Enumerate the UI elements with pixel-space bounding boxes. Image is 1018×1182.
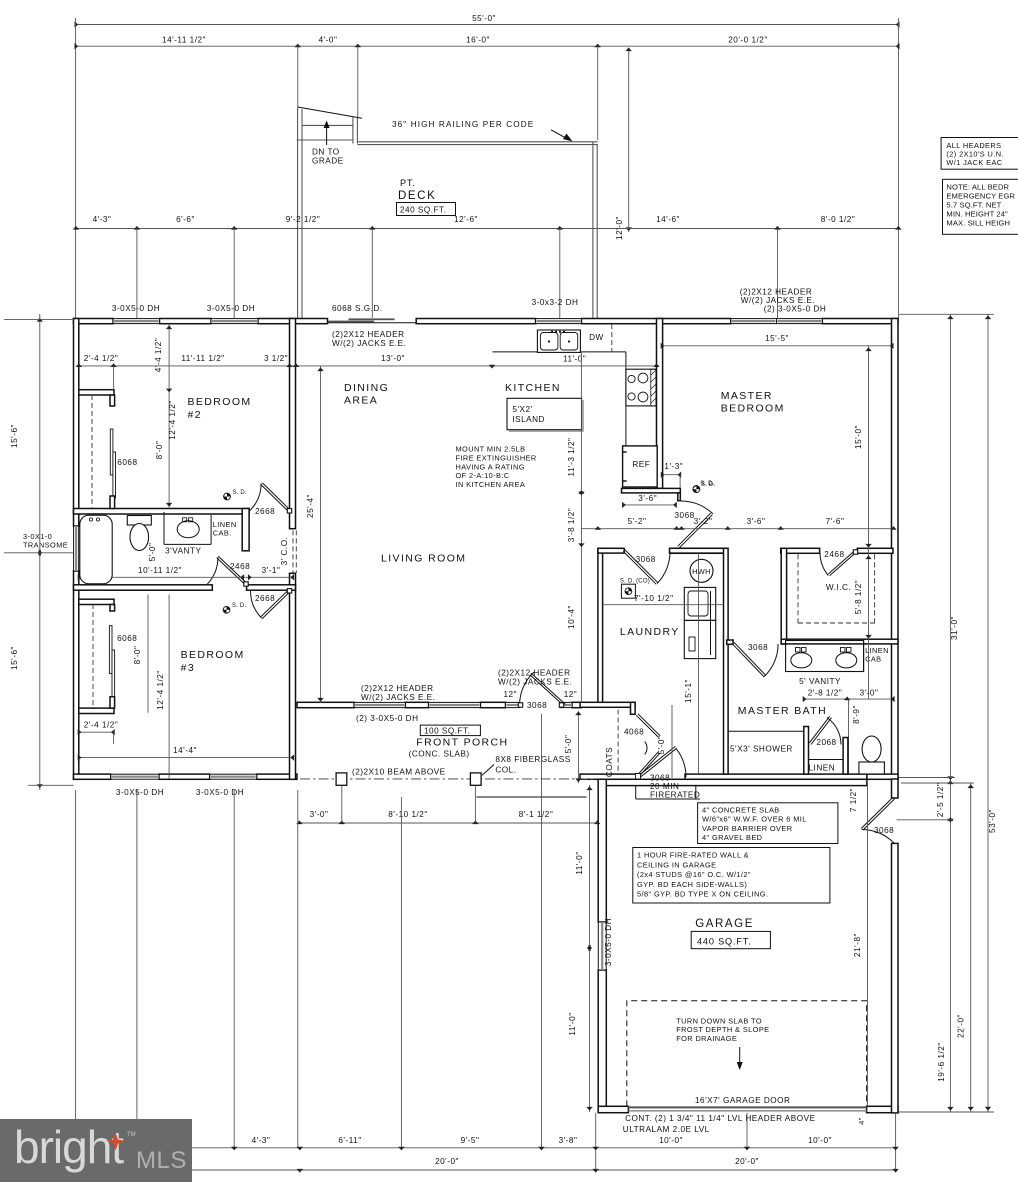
sliding glass door 6068 S.G.D.	[328, 322, 417, 324]
deck stair slanted top	[298, 107, 362, 118]
svg-text:25'-4": 25'-4"	[306, 494, 315, 518]
bedroom3 vertical dims	[147, 594, 149, 712]
dim row y366 bedroom2/dining/kitchen	[79, 365, 657, 367]
svg-text:240 SQ.FT.: 240 SQ.FT.	[400, 206, 446, 215]
hot water heater HWH	[690, 559, 713, 582]
porch column 1 8X8	[336, 773, 347, 785]
svg-text:15'-5": 15'-5"	[765, 334, 789, 343]
svg-text:TM: TM	[127, 1132, 136, 1138]
hall bath bottom wall	[74, 585, 213, 590]
svg-text:(2)2X12 HEADER: (2)2X12 HEADER	[361, 684, 434, 693]
extension line left house corner	[75, 18, 77, 318]
svg-text:3068: 3068	[874, 826, 894, 835]
svg-text:21'-8": 21'-8"	[853, 933, 862, 957]
svg-text:CONT. (2) 1 3/4" 11 1/4" LVL H: CONT. (2) 1 3/4" 11 1/4" LVL HEADER ABOV…	[625, 1114, 815, 1123]
vanity sink left	[791, 653, 812, 668]
svg-text:CEILING IN GARAGE: CEILING IN GARAGE	[637, 860, 717, 869]
svg-text:14'-11 1/2": 14'-11 1/2"	[162, 36, 206, 45]
smoke detector bedroom3	[223, 606, 230, 613]
svg-text:W/(2) JACKS E.E.: W/(2) JACKS E.E.	[332, 339, 406, 348]
note box 1 hour fire-rated wall	[633, 848, 830, 904]
svg-text:12'-0": 12'-0"	[615, 216, 624, 240]
master bath vanity counter	[786, 641, 864, 672]
dryer	[684, 620, 715, 658]
svg-text:(2)2X12 HEADER: (2)2X12 HEADER	[332, 330, 405, 339]
svg-text:TRANSOME: TRANSOME	[23, 541, 68, 550]
svg-text:3'VANTY: 3'VANTY	[165, 547, 201, 556]
deck railing top	[357, 141, 597, 143]
svg-text:MASTER: MASTER	[721, 390, 773, 402]
svg-text:LIVING ROOM: LIVING ROOM	[381, 553, 466, 565]
svg-text:#3: #3	[181, 662, 195, 674]
garage left wall	[598, 779, 606, 922]
svg-text:8'-0": 8'-0"	[155, 441, 164, 460]
svg-text:3'-0": 3'-0"	[310, 810, 329, 819]
svg-text:2468: 2468	[824, 550, 844, 559]
svg-text:FIRE EXTINGUISHER: FIRE EXTINGUISHER	[456, 453, 537, 462]
left dim line 15'-6" x2	[39, 314, 41, 790]
master bedroom south wall	[670, 548, 727, 553]
garage right wall	[892, 779, 899, 798]
svg-text:2'-4 1/2": 2'-4 1/2"	[84, 354, 118, 363]
svg-text:20'-0 1/2": 20'-0 1/2"	[728, 36, 768, 45]
svg-text:10'-0": 10'-0"	[808, 1136, 832, 1145]
svg-text:14'-6": 14'-6"	[656, 215, 680, 224]
porch recessed front wall	[297, 702, 354, 707]
shower 5'X3'	[728, 730, 804, 732]
washer	[684, 587, 715, 620]
right dim line B 53'-0"	[987, 314, 989, 1112]
entry door sidelite left 12 inch	[506, 702, 520, 707]
bedroom2 closet rod dashed	[91, 395, 93, 509]
svg-text:NOTE: ALL BEDR: NOTE: ALL BEDR	[946, 182, 1009, 191]
svg-text:BEDROOM: BEDROOM	[181, 649, 245, 661]
dim 8'-9"	[848, 699, 850, 774]
svg-text:11'-3 1/2": 11'-3 1/2"	[567, 438, 576, 477]
right dim line C 22'-0"	[970, 783, 972, 1112]
svg-text:5'-8 1/2": 5'-8 1/2"	[854, 580, 863, 614]
svg-text:#2: #2	[188, 409, 202, 421]
bedroom2 bottom wall	[74, 509, 250, 515]
garage bottom wall	[598, 1106, 628, 1112]
kitchen south wall with REF counter	[622, 488, 681, 493]
svg-text:BEDROOM: BEDROOM	[721, 403, 785, 415]
laundry dim 7'-10 1/2"	[603, 604, 724, 606]
garage window 3-0X5-0 DH	[598, 922, 606, 970]
svg-text:55'-0": 55'-0"	[472, 14, 496, 23]
WIC door 2468	[828, 550, 855, 574]
deck stair right rail	[352, 117, 354, 143]
svg-text:15'-0": 15'-0"	[854, 425, 863, 449]
svg-text:DINING: DINING	[344, 382, 389, 394]
svg-text:(2) 3-0X5-0 DH: (2) 3-0X5-0 DH	[356, 714, 419, 723]
svg-text:3'-1": 3'-1"	[262, 566, 281, 575]
bottom extension lines	[75, 790, 77, 1148]
WIC west wall	[781, 548, 786, 644]
svg-text:3068: 3068	[675, 511, 695, 520]
porch depth dim 5'-0"	[577, 711, 579, 783]
porch column 2 8X8	[470, 773, 481, 785]
svg-text:9'-5": 9'-5"	[461, 1136, 480, 1145]
hall bath tub	[80, 515, 112, 584]
svg-text:12'-4 1/2": 12'-4 1/2"	[168, 400, 177, 440]
bedroom3 closet bifold panels 6068	[109, 626, 112, 674]
svg-text:53'-0": 53'-0"	[988, 809, 997, 833]
svg-text:2068: 2068	[816, 738, 836, 747]
deck stair left rail	[297, 108, 299, 319]
deck stair tread line	[302, 124, 353, 126]
svg-text:DN TO: DN TO	[312, 148, 340, 157]
svg-text:8'-0 1/2": 8'-0 1/2"	[821, 215, 855, 224]
svg-text:1'-3": 1'-3"	[664, 462, 683, 471]
hall dim row y528: 5'-2", 3'-2", 3'-6", 7'-6"	[581, 528, 893, 530]
svg-text:11'-11 1/2": 11'-11 1/2"	[181, 354, 224, 363]
svg-text:HAVING A RATING: HAVING A RATING	[456, 462, 525, 471]
window center extension lines to row 3	[136, 229, 138, 319]
svg-text:3-0X5-0 DH: 3-0X5-0 DH	[116, 788, 164, 797]
svg-text:4": 4"	[857, 1117, 866, 1125]
right exterior wall main house	[892, 319, 899, 780]
svg-text:1 HOUR FIRE-RATED WALL &: 1 HOUR FIRE-RATED WALL &	[637, 851, 749, 860]
svg-text:(2)2X10 BEAM ABOVE: (2)2X10 BEAM ABOVE	[352, 768, 446, 777]
svg-text:5'X3' SHOWER: 5'X3' SHOWER	[730, 745, 793, 754]
overall dimension 55'-0" top row	[76, 24, 899, 26]
svg-text:KITCHEN: KITCHEN	[505, 382, 561, 394]
vanity sink right	[836, 653, 857, 668]
svg-text:4'-3": 4'-3"	[252, 1136, 271, 1145]
logo star	[106, 1133, 125, 1151]
svg-text:3'-0": 3'-0"	[860, 689, 879, 698]
living room vertical dim 10'-4"	[580, 549, 582, 703]
dishwasher DW dashed	[611, 324, 613, 352]
svg-text:22'-0": 22'-0"	[957, 1014, 966, 1038]
svg-text:3068: 3068	[748, 643, 768, 652]
garage door 16X7	[628, 1106, 866, 1108]
svg-text:W/1 JACK EAC: W/1 JACK EAC	[946, 158, 1002, 167]
laundry to garage door 3068 20-min fire-rated	[641, 748, 677, 777]
svg-text:12'-6": 12'-6"	[454, 215, 478, 224]
bottom dim row 1	[76, 1147, 896, 1149]
extension line stair right	[357, 46, 359, 117]
svg-text:14'-4": 14'-4"	[173, 746, 197, 755]
svg-text:36" HIGH RAILING PER CODE: 36" HIGH RAILING PER CODE	[392, 120, 534, 129]
hall bath toilet	[127, 516, 151, 526]
svg-text:15'-6": 15'-6"	[10, 424, 19, 448]
svg-text:VAPOR BARRIER OVER: VAPOR BARRIER OVER	[702, 824, 792, 833]
svg-text:MLS: MLS	[136, 1147, 187, 1174]
entry door 3068 leaf and swing	[530, 675, 564, 706]
svg-text:LINEN: LINEN	[809, 764, 836, 773]
laundry top wall segments with door 3068	[598, 548, 624, 553]
svg-text:11'-0": 11'-0"	[568, 1012, 577, 1035]
svg-text:MAX. SILL HEIGH: MAX. SILL HEIGH	[946, 218, 1010, 227]
refrigerator REF	[623, 446, 658, 487]
svg-text:bright: bright	[14, 1121, 124, 1173]
svg-text:3068: 3068	[636, 555, 656, 564]
front exterior wall left section	[74, 774, 111, 779]
deck railing right side	[592, 142, 594, 319]
laundry door 3068	[623, 551, 656, 584]
bedroom2 door 2668	[262, 483, 289, 510]
svg-text:5.7 SQ.FT. NET: 5.7 SQ.FT. NET	[946, 200, 1001, 209]
svg-text:4'-0": 4'-0"	[319, 36, 338, 45]
svg-text:4'-4 1/2": 4'-4 1/2"	[154, 338, 163, 372]
master bedroom door 3068	[679, 515, 712, 548]
bright MLS logo box	[0, 1119, 192, 1182]
bedroom2 closet return top	[79, 390, 114, 395]
svg-text:31'-0": 31'-0"	[950, 616, 959, 640]
bedroom2 closet return bottom	[110, 496, 115, 509]
svg-text:9'-2 1/2": 9'-2 1/2"	[286, 215, 320, 224]
window 3-0X5-0 DH bedroom2 left	[113, 319, 160, 324]
svg-text:ISLAND: ISLAND	[512, 415, 545, 424]
svg-text:GARAGE: GARAGE	[695, 918, 754, 930]
label 440 SQ.FT. box	[691, 931, 770, 948]
linen cabinet divider master bath	[863, 641, 865, 672]
svg-text:6'-6": 6'-6"	[176, 215, 195, 224]
svg-text:20'-0": 20'-0"	[435, 1157, 459, 1166]
svg-text:PT.: PT.	[400, 178, 416, 188]
svg-text:5'-0": 5'-0"	[657, 736, 666, 755]
kitchen counter edge	[493, 351, 626, 353]
svg-text:COATS: COATS	[605, 747, 614, 777]
WIC dashed shelving	[797, 554, 799, 623]
garage left dim 11'-0" x2	[589, 785, 591, 1112]
svg-text:MIN. HEIGHT 24": MIN. HEIGHT 24"	[946, 209, 1008, 218]
window 3-0X1-0 transom in left wall	[74, 526, 79, 571]
svg-text:GRADE: GRADE	[312, 157, 344, 166]
coats closet top wall	[580, 702, 635, 707]
svg-text:FOR DRAINAGE: FOR DRAINAGE	[676, 1034, 737, 1043]
svg-text:CAB: CAB	[865, 655, 881, 664]
svg-text:10'-0": 10'-0"	[659, 1136, 683, 1145]
svg-text:S. D. (CO): S. D. (CO)	[620, 579, 650, 585]
svg-text:DW: DW	[589, 333, 604, 342]
window 3-0X5-0 DH bedroom3 right	[210, 774, 257, 779]
svg-text:CAB.: CAB.	[213, 529, 232, 538]
garage top wall	[598, 779, 867, 785]
svg-text:S. D.: S. D.	[701, 482, 715, 488]
deck stair landing line	[297, 139, 353, 141]
svg-text:4'-3": 4'-3"	[93, 215, 112, 224]
svg-text:TURN DOWN SLAB TO: TURN DOWN SLAB TO	[676, 1017, 762, 1026]
extension line deck right	[597, 46, 599, 140]
svg-text:W/(2) JACKS E.E.: W/(2) JACKS E.E.	[361, 693, 435, 702]
smoke detector S.D.(CO) laundry	[621, 584, 635, 598]
hall living room wall with cased opening	[292, 530, 294, 573]
svg-text:12'-4 1/2": 12'-4 1/2"	[156, 670, 165, 710]
svg-text:3'-2": 3'-2"	[694, 517, 713, 526]
svg-text:W.I.C.: W.I.C.	[826, 583, 851, 592]
svg-text:5'X2': 5'X2'	[512, 405, 532, 414]
svg-text:13'-0": 13'-0"	[381, 354, 405, 363]
svg-text:AREA: AREA	[344, 395, 378, 407]
svg-text:6068 S.G.D.: 6068 S.G.D.	[332, 304, 383, 313]
svg-text:2'-5 1/2": 2'-5 1/2"	[936, 783, 945, 817]
svg-text:ULTRALAM 2.0E LVL: ULTRALAM 2.0E LVL	[623, 1125, 710, 1134]
svg-text:COL.: COL.	[495, 766, 516, 775]
svg-text:5'-0": 5'-0"	[148, 543, 157, 562]
bedroom2 vertical dims	[168, 324, 170, 509]
svg-text:11'-0": 11'-0"	[563, 355, 586, 364]
svg-text:7'-6": 7'-6"	[826, 517, 845, 526]
svg-text:2468: 2468	[230, 562, 250, 571]
porch window B	[429, 702, 481, 707]
svg-text:(2) 3-0X5-0 DH: (2) 3-0X5-0 DH	[764, 305, 827, 314]
svg-text:16'-0": 16'-0"	[466, 36, 490, 45]
dim 3'-6" below REF	[623, 504, 676, 506]
master bedroom dim 15'-5"	[662, 345, 893, 347]
svg-text:4" GRAVEL BED: 4" GRAVEL BED	[702, 833, 762, 842]
svg-text:7 1/2": 7 1/2"	[849, 788, 858, 812]
svg-text:15'-1": 15'-1"	[684, 679, 693, 703]
bedroom2 closet bifold panels 6068	[110, 429, 113, 475]
deck area 240 SQ.FT. box	[397, 203, 456, 216]
svg-text:S. D.: S. D.	[233, 490, 247, 496]
turn down slab dashed rect	[627, 1001, 867, 1107]
laundry dim 15'-1"	[698, 552, 700, 774]
hall bath door 2468	[218, 556, 247, 583]
svg-text:12": 12"	[564, 690, 578, 699]
hall bath vanity	[163, 512, 165, 544]
svg-text:4068: 4068	[624, 728, 644, 737]
svg-text:3-0x3-2 DH: 3-0x3-2 DH	[532, 298, 579, 307]
kitchen island 5'X2'	[507, 398, 582, 429]
right dim line A 31'-0" 2'-5 1/2" 19'-6 1/2"	[949, 314, 951, 1112]
note box 4 inch concrete slab	[698, 803, 838, 844]
svg-text:3-0X5-0 DH: 3-0X5-0 DH	[112, 304, 160, 313]
svg-text:8'-1 1/2": 8'-1 1/2"	[519, 810, 553, 819]
svg-text:20'-0": 20'-0"	[735, 1157, 759, 1166]
laundry west wall	[598, 548, 603, 705]
svg-text:IN KITCHEN AREA: IN KITCHEN AREA	[456, 480, 526, 489]
porch slab edge dash-dot	[300, 778, 594, 780]
svg-text:7'-10 1/2": 7'-10 1/2"	[634, 594, 674, 603]
porch window A (2)3-0X5-0 DH	[354, 702, 405, 707]
svg-text:2668: 2668	[255, 507, 275, 516]
svg-text:19'-6 1/2": 19'-6 1/2"	[937, 1042, 946, 1082]
step line below porch	[476, 796, 586, 798]
label 5'-0" coats depth	[671, 705, 673, 778]
svg-text:OF 2-A:10-B:C: OF 2-A:10-B:C	[456, 471, 510, 480]
porch dim row 3'-0" 8'-10 1/2" 8'-1 1/2"	[299, 822, 597, 824]
bath vestibule door 3068 to master bath	[727, 640, 733, 644]
svg-text:3-0X5-0 DH: 3-0X5-0 DH	[604, 918, 613, 966]
bedroom3 closet rod dashed	[92, 604, 94, 707]
svg-text:2668: 2668	[255, 594, 275, 603]
front wall of laundry-bath wing	[580, 774, 640, 779]
svg-text:3'-6": 3'-6"	[747, 517, 766, 526]
dim 1'-3" stub	[662, 474, 680, 476]
linen closet master bath	[804, 727, 809, 775]
svg-text:(2)2X12 HEADER: (2)2X12 HEADER	[498, 669, 571, 678]
kitchen vertical dim 11'-3 1/2" / 3'-8 1/2"	[580, 352, 582, 549]
smoke detector master bedroom near door	[693, 486, 700, 493]
bedroom2 dining wall	[290, 319, 296, 529]
WIC dim 5'-8 1/2"	[868, 346, 870, 699]
svg-text:5/8" GYP. BD TYPE X ON CEILI: 5/8" GYP. BD TYPE X ON CEILING.	[637, 890, 768, 899]
svg-text:3068: 3068	[527, 701, 547, 710]
svg-text:440 SQ.FT.: 440 SQ.FT.	[697, 937, 751, 947]
svg-text:W/6"x6" W.W.F. OVER 6 MIL: W/6"x6" W.W.F. OVER 6 MIL	[702, 815, 807, 824]
left exterior wall	[74, 319, 79, 527]
svg-text:HWH: HWH	[692, 567, 711, 576]
bedroom3 closet return bottom	[79, 708, 114, 713]
WIC bottom wall / vanity back	[781, 639, 898, 644]
svg-text:W/(2) JACKS E.E.: W/(2) JACKS E.E.	[498, 678, 572, 687]
extension line deck left	[297, 46, 299, 107]
svg-text:(2x4 STUDS @16" O.C. W/1/2": (2x4 STUDS @16" O.C. W/1/2"	[637, 870, 751, 879]
svg-text:5'-2": 5'-2"	[628, 517, 647, 526]
svg-text:10'-4": 10'-4"	[567, 605, 576, 629]
garage dim 21'-8"	[867, 783, 869, 1106]
svg-text:2'-4 1/2": 2'-4 1/2"	[84, 721, 118, 730]
bedroom3 closet return top	[79, 599, 114, 604]
top exterior wall	[74, 319, 114, 324]
svg-text:(CONC. SLAB): (CONC. SLAB)	[409, 750, 470, 759]
svg-text:FRONT PORCH: FRONT PORCH	[416, 737, 508, 749]
left extension ticks	[4, 318, 74, 320]
svg-text:3'-8 1/2": 3'-8 1/2"	[567, 508, 576, 542]
smoke detector bedroom2	[224, 493, 231, 500]
svg-text:FIRERATED: FIRERATED	[650, 791, 700, 800]
porch column extension lines	[341, 786, 343, 824]
svg-text:8'-10 1/2": 8'-10 1/2"	[388, 810, 428, 819]
svg-text:6'-11": 6'-11"	[338, 1136, 361, 1145]
svg-text:3 1/2": 3 1/2"	[264, 354, 288, 363]
window 3-0X5-0 DH bedroom2 right	[211, 319, 258, 324]
svg-text:3' C.O.: 3' C.O.	[280, 537, 289, 566]
double window (2)3-0X5-0 DH master bedroom	[731, 319, 777, 324]
extension line right house corner	[897, 18, 899, 318]
note box NOTE ALL BEDROOMS EGRESS	[943, 179, 1018, 234]
svg-text:EMERGENCY EGR: EMERGENCY EGR	[946, 191, 1015, 200]
svg-text:MASTER BATH: MASTER BATH	[738, 705, 827, 717]
label 100 SQ.FT. box	[420, 725, 480, 736]
svg-text:8'-0": 8'-0"	[133, 646, 142, 665]
svg-text:6068: 6068	[117, 634, 137, 643]
svg-text:3'-8": 3'-8"	[559, 1136, 578, 1145]
stair direction arrow DN TO GRADE	[326, 124, 328, 145]
window 3-0x3-2 DH kitchen	[536, 319, 582, 324]
svg-text:11'-0": 11'-0"	[575, 851, 584, 874]
linen cabinet hall	[242, 509, 249, 551]
svg-text:3'-6": 3'-6"	[638, 494, 657, 503]
dim 14'-4" bedroom3	[79, 757, 293, 759]
laundry east wall (bath wall)	[724, 548, 729, 774]
svg-text:BEDROOM: BEDROOM	[188, 396, 252, 408]
svg-text:10'-11 1/2": 10'-11 1/2"	[138, 566, 182, 575]
dimension row 3 above house: 4'-3",6'-6",9'-2 1/2",12'-6",14'-6",8'-0 1/2"	[76, 228, 898, 230]
svg-text:6068: 6068	[117, 458, 137, 467]
bedroom3 top wall door 2668	[260, 590, 288, 617]
svg-text:3-0X5-0 DH: 3-0X5-0 DH	[196, 788, 244, 797]
entry door sidelite right 12 inch	[560, 702, 572, 707]
dim 2'-4 1/2" bedroom3 closet	[79, 731, 114, 733]
svg-text:15'-6": 15'-6"	[10, 646, 19, 670]
svg-text:8X8 FIBERGLASS: 8X8 FIBERGLASS	[495, 755, 570, 764]
coats closet rod dashed	[617, 710, 619, 772]
garage side door 3068	[861, 797, 893, 828]
vanity dims 2'-8 1/2" and 3'-0"	[804, 698, 894, 700]
dining vertical dim 25'-4"	[320, 366, 322, 703]
right extension lines	[899, 313, 994, 315]
kitchen sink double bowl	[537, 330, 580, 352]
toilet master bath	[859, 762, 885, 774]
dimension row 2: 14'-11 1/2", 4'-0", 16'-0", 20'-0 1/2"	[76, 45, 899, 47]
svg-text:100 SQ.FT.: 100 SQ.FT.	[424, 726, 470, 735]
deck vertical dimension 12'-0"	[628, 48, 630, 232]
